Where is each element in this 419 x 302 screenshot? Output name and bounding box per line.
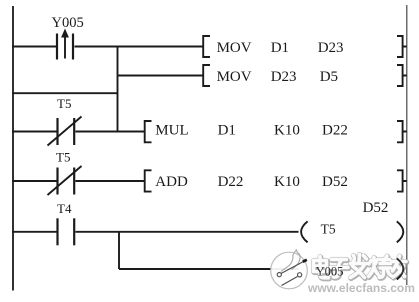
svg-text:D1: D1 <box>218 122 236 138</box>
svg-text:T4: T4 <box>57 201 72 216</box>
svg-text:D1: D1 <box>271 40 289 56</box>
svg-text:Y005: Y005 <box>52 15 84 31</box>
svg-text:T5: T5 <box>56 149 70 164</box>
svg-text:MUL: MUL <box>155 122 188 138</box>
svg-text:K10: K10 <box>274 174 300 190</box>
svg-text:T5: T5 <box>57 96 71 111</box>
svg-text:D22: D22 <box>218 174 244 190</box>
svg-text:D23: D23 <box>271 69 297 85</box>
svg-text:D5: D5 <box>320 69 338 85</box>
svg-text:K10: K10 <box>274 122 300 138</box>
svg-text:D52: D52 <box>322 174 348 190</box>
svg-text:Y005: Y005 <box>316 264 344 278</box>
svg-text:D52: D52 <box>363 200 389 216</box>
svg-text:D22: D22 <box>322 122 348 138</box>
svg-text:ADD: ADD <box>155 174 188 190</box>
svg-text:www.elecfans.com: www.elecfans.com <box>307 281 415 295</box>
svg-text:MOV: MOV <box>217 69 252 85</box>
svg-text:T5: T5 <box>321 222 336 237</box>
svg-text:D23: D23 <box>318 40 344 56</box>
svg-text:MOV: MOV <box>217 40 252 56</box>
